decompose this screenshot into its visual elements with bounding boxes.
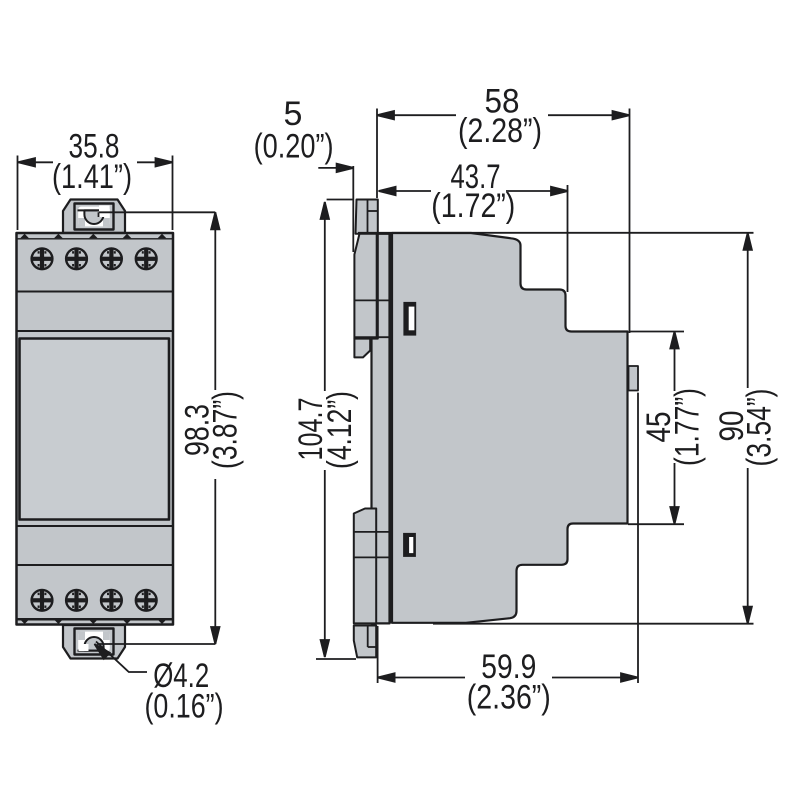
svg-text:(0.16”): (0.16”)	[145, 687, 224, 725]
svg-text:(0.20”): (0.20”)	[254, 128, 334, 166]
svg-text:(2.36”): (2.36”)	[467, 678, 551, 716]
svg-text:(1.77”): (1.77”)	[669, 388, 707, 466]
svg-text:(3.54”): (3.54”)	[741, 389, 779, 467]
svg-text:(2.28”): (2.28”)	[458, 112, 542, 150]
svg-text:(1.41”): (1.41”)	[52, 158, 132, 196]
svg-text:(3.87”): (3.87”)	[207, 391, 245, 469]
svg-text:(4.12”): (4.12”)	[321, 391, 359, 469]
svg-text:(1.72”): (1.72”)	[431, 187, 515, 225]
